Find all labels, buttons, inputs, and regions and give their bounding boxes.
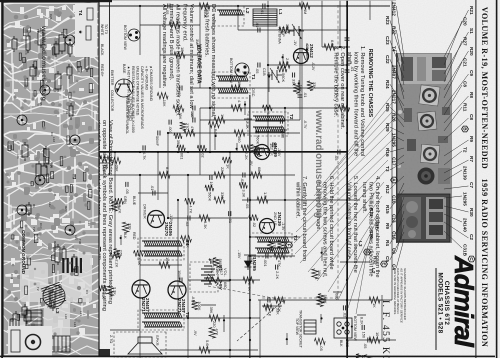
resistor Rf bbox=[122, 222, 128, 232]
svg-text:OSC.: OSC. bbox=[251, 88, 256, 98]
resistor Rf bbox=[110, 157, 121, 163]
svg-text:-1.3V: -1.3V bbox=[281, 222, 285, 231]
svg-text:560K: 560K bbox=[208, 192, 213, 201]
resistor Rf bbox=[241, 145, 250, 151]
svg-text:220: 220 bbox=[128, 223, 133, 230]
svg-text:BOTTOM VIEW: BOTTOM VIEW bbox=[353, 316, 357, 342]
capacitor Cf bbox=[210, 175, 212, 180]
svg-text:C31B: C31B bbox=[463, 244, 468, 257]
svg-text:2N271: 2N271 bbox=[177, 299, 182, 313]
svg-text:.01: .01 bbox=[255, 22, 260, 27]
svg-text:2.2K: 2.2K bbox=[114, 259, 119, 267]
svg-text:T3: T3 bbox=[385, 166, 390, 172]
transformer winding T4a bbox=[142, 241, 182, 246]
capacitor C19 bbox=[368, 338, 370, 343]
capacitor Cf bbox=[280, 119, 282, 124]
resistor Rf bbox=[98, 285, 106, 291]
resistor Rf bbox=[307, 81, 313, 91]
svg-text:1K: 1K bbox=[372, 303, 377, 308]
svg-text:TO T3: TO T3 bbox=[104, 24, 108, 34]
svg-text:REMOVING THE CHASSIS: REMOVING THE CHASSIS bbox=[367, 49, 373, 118]
svg-text:5MF: 5MF bbox=[102, 165, 107, 173]
svg-text:2N139: 2N139 bbox=[463, 166, 468, 180]
svg-text:C3: C3 bbox=[50, 132, 54, 136]
svg-text:.02: .02 bbox=[177, 91, 182, 96]
capacitor C4 bbox=[180, 86, 182, 91]
capacitor C22 bbox=[198, 45, 200, 50]
resistor Rf bbox=[100, 156, 110, 162]
svg-text:GRN: GRN bbox=[123, 196, 127, 204]
svg-text:10K: 10K bbox=[317, 270, 322, 277]
resistor R26 bbox=[369, 337, 380, 343]
svg-text:3.3K: 3.3K bbox=[137, 257, 142, 265]
capacitor C24 bbox=[338, 150, 340, 155]
detector rail bbox=[249, 95, 250, 358]
transformer winding T3a bbox=[255, 237, 289, 242]
svg-text:L26: L26 bbox=[87, 221, 91, 226]
resistor Rf bbox=[134, 250, 144, 256]
svg-text:-1.2V: -1.2V bbox=[169, 214, 173, 223]
svg-text:1M: 1M bbox=[303, 9, 308, 14]
svg-text:2.2K: 2.2K bbox=[244, 152, 249, 160]
svg-text:L13: L13 bbox=[79, 311, 83, 316]
svg-text:.05: .05 bbox=[165, 9, 170, 14]
resistor Rf bbox=[113, 249, 119, 258]
resistor Rf bbox=[277, 240, 283, 249]
svg-text:TRANSISTOR SYMBOL: TRANSISTOR SYMBOL bbox=[125, 96, 129, 134]
svg-text:.05: .05 bbox=[125, 188, 130, 193]
IF shield dashed line bbox=[337, 5, 339, 298]
svg-text:.01: .01 bbox=[228, 218, 233, 223]
capacitor Cf bbox=[276, 265, 278, 270]
resistor R2 bbox=[324, 44, 335, 50]
svg-text:10K: 10K bbox=[237, 81, 242, 88]
svg-text:T2: T2 bbox=[36, 287, 40, 291]
svg-text:4.7K: 4.7K bbox=[142, 152, 147, 160]
board ref labels bbox=[10, 14, 91, 327]
svg-text:T4: T4 bbox=[78, 10, 83, 16]
tuning capacitor C1B bbox=[267, 68, 282, 83]
resistor Rf bbox=[111, 201, 117, 211]
resistor Rf bbox=[213, 258, 219, 268]
svg-text:5. Loosen the hex nut that sec: 5. Loosen the hex nut that secures the bbox=[352, 176, 358, 273]
resistor R14 bbox=[274, 297, 285, 303]
svg-text:.01: .01 bbox=[260, 9, 265, 14]
svg-text:39K: 39K bbox=[101, 292, 106, 299]
resistor R12 bbox=[274, 253, 285, 259]
resistor Rf bbox=[115, 198, 124, 204]
resistor Rf bbox=[264, 304, 274, 310]
capacitor C10 bbox=[266, 254, 268, 259]
svg-text:R7: R7 bbox=[469, 156, 474, 162]
svg-text:.02: .02 bbox=[252, 222, 257, 227]
test point A bbox=[391, 177, 398, 183]
resistor R23 bbox=[174, 52, 185, 58]
svg-text:CHASSIS 6T2: CHASSIS 6T2 bbox=[443, 281, 450, 326]
capacitor Cf bbox=[292, 73, 294, 78]
svg-text:T5: T5 bbox=[185, 312, 190, 318]
svg-text:BLUE: BLUE bbox=[132, 196, 136, 206]
resistor R17 VOLUME bbox=[206, 277, 222, 283]
resistor Rf bbox=[205, 185, 214, 191]
loop antenna L1 bbox=[253, 9, 277, 26]
svg-text:L24: L24 bbox=[73, 322, 77, 327]
board small parts bbox=[8, 15, 93, 320]
callout labels above photo bbox=[444, 6, 475, 262]
resistor Rf bbox=[181, 236, 192, 242]
resistor R21 bbox=[199, 3, 210, 9]
svg-text:R23: R23 bbox=[385, 16, 390, 25]
svg-text:L1: L1 bbox=[278, 9, 283, 15]
svg-text:100K: 100K bbox=[197, 301, 202, 310]
svg-text:2.2K: 2.2K bbox=[210, 265, 215, 273]
svg-text:.05: .05 bbox=[363, 343, 368, 348]
svg-text:2.7K: 2.7K bbox=[247, 283, 252, 291]
svg-text:C20: C20 bbox=[463, 17, 468, 26]
svg-text:68K: 68K bbox=[257, 167, 262, 174]
svg-text:150: 150 bbox=[361, 332, 366, 339]
svg-text:www.radiomuseum.org: www.radiomuseum.org bbox=[40, 25, 47, 101]
svg-text:1959 RADIO SERVICING INFORMATI: 1959 RADIO SERVICING INFORMATION bbox=[480, 179, 489, 348]
svg-text:-0.7V: -0.7V bbox=[303, 120, 307, 129]
tuning capacitor C1A bbox=[289, 24, 304, 39]
svg-text:330: 330 bbox=[220, 192, 225, 199]
svg-text:C23: C23 bbox=[385, 36, 390, 45]
svg-text:two Phillips head screws adjac: two Phillips head screws adjacent the bbox=[368, 182, 374, 277]
svg-text:C8: C8 bbox=[469, 114, 474, 120]
resistor Rf bbox=[185, 198, 195, 204]
svg-text:RED: RED bbox=[132, 232, 136, 240]
lower rail bbox=[108, 0, 111, 175]
left lower border bbox=[0, 0, 112, 2]
svg-text:C9: C9 bbox=[469, 70, 474, 76]
svg-text:FOR USE IN GENERAL REPAIRS.: FOR USE IN GENERAL REPAIRS. bbox=[393, 268, 397, 315]
transistor Q2 2N139 first IF bbox=[255, 145, 270, 160]
svg-text:RED: RED bbox=[345, 340, 349, 348]
svg-text:R26: R26 bbox=[53, 241, 57, 247]
svg-text:150K: 150K bbox=[203, 9, 208, 18]
svg-text:R8: R8 bbox=[469, 92, 474, 98]
svg-text:2N270: 2N270 bbox=[164, 222, 169, 236]
right page border bbox=[0, 356, 495, 358]
svg-text:220: 220 bbox=[212, 321, 217, 328]
resistor Rf bbox=[209, 327, 215, 338]
capacitor C5 bbox=[193, 106, 195, 111]
IF transformer T2 (shield box) bbox=[248, 112, 288, 136]
transformer winding T2a bbox=[253, 116, 285, 121]
svg-text:6.8K: 6.8K bbox=[330, 40, 335, 48]
callout labels below photo bbox=[385, 2, 404, 270]
oscillator coil T1 (shield box) bbox=[212, 72, 250, 98]
svg-text:3. Remove the battery case.: 3. Remove the battery case. bbox=[333, 46, 339, 118]
svg-text:100: 100 bbox=[165, 257, 170, 264]
svg-text:R4: R4 bbox=[385, 240, 390, 246]
svg-text:COMMON GROUND: COMMON GROUND bbox=[21, 230, 26, 275]
svg-text:2.2K: 2.2K bbox=[112, 287, 117, 295]
resistor Rf bbox=[364, 355, 370, 358]
printed wiring board view bbox=[3, 2, 99, 356]
svg-text:terminals and B plus (ground).: terminals and B plus (ground). bbox=[168, 4, 174, 81]
svg-text:BOTTOM VIEW: BOTTOM VIEW bbox=[123, 25, 127, 51]
masthead rule above logo bbox=[475, 0, 476, 358]
svg-text:8.2K: 8.2K bbox=[359, 317, 364, 325]
svg-text:1. Remove Tuning knob and Volu: 1. Remove Tuning knob and Volume control bbox=[359, 46, 365, 156]
transistor Q4 2N406 driver bbox=[148, 211, 165, 228]
svg-text:47K: 47K bbox=[214, 328, 219, 335]
transformer winding T5b bbox=[142, 322, 182, 327]
bottom page border bbox=[1, 0, 3, 358]
svg-text:.001: .001 bbox=[168, 126, 173, 134]
capacitor C2 bbox=[345, 38, 350, 40]
svg-text:33K: 33K bbox=[312, 82, 317, 89]
svg-text:560K: 560K bbox=[281, 73, 286, 82]
resistor Rf bbox=[249, 214, 258, 220]
faint page edge bbox=[112, 0, 396, 2]
resistor R4 bbox=[231, 85, 242, 91]
svg-text:.02: .02 bbox=[185, 221, 190, 226]
schematic wiring bbox=[96, 0, 396, 358]
svg-text:T25: T25 bbox=[32, 227, 36, 233]
svg-text:C21: C21 bbox=[463, 58, 468, 67]
svg-text:on opposite side. Black symbo: on opposite side. Black symbols and line… bbox=[101, 120, 107, 311]
capacitor Cf bbox=[169, 120, 171, 125]
resistor R15 bbox=[234, 130, 245, 136]
svg-text:R1: R1 bbox=[32, 204, 36, 208]
resistor R8 bbox=[251, 172, 262, 178]
svg-text:L2: L2 bbox=[245, 8, 250, 14]
2N139 socket bottom view (small) bbox=[128, 29, 140, 41]
resistor Rf bbox=[173, 105, 184, 111]
svg-text:L3: L3 bbox=[358, 241, 363, 247]
resistor R18 bbox=[159, 262, 170, 268]
resistor R16 bbox=[199, 215, 210, 221]
svg-text:DRIVER: DRIVER bbox=[143, 204, 148, 219]
svg-text:BOTTOM VIEW: BOTTOM VIEW bbox=[229, 58, 233, 84]
resistor R20 bbox=[299, 3, 310, 9]
svg-text:C1B: C1B bbox=[262, 68, 267, 76]
svg-text:E: E bbox=[381, 262, 386, 265]
resistor R28 bbox=[199, 347, 210, 353]
svg-text:4. On the front of the cabinet: 4. On the front of the cabinet, loosen t… bbox=[374, 176, 380, 278]
svg-text:1K: 1K bbox=[185, 243, 190, 248]
resistor Rf bbox=[209, 121, 220, 127]
svg-text:2.2K: 2.2K bbox=[275, 271, 280, 279]
capacitor C16 bbox=[345, 70, 350, 72]
speaker magnet on board bbox=[26, 335, 41, 350]
resistor R1 bbox=[279, 27, 290, 33]
callout leader fan bbox=[294, 95, 392, 314]
svg-text:T30: T30 bbox=[78, 239, 82, 245]
svg-text:COLLECTOR: COLLECTOR bbox=[110, 90, 114, 112]
svg-text:T2: T2 bbox=[463, 147, 468, 153]
printed wiring board note bbox=[95, 120, 113, 311]
svg-text:C11: C11 bbox=[10, 274, 14, 280]
svg-text:UNLESS OTHERWISE NOTED.: UNLESS OTHERWISE NOTED. bbox=[136, 66, 140, 116]
svg-text:-1V: -1V bbox=[293, 40, 297, 46]
resistor Rf bbox=[180, 122, 186, 130]
svg-text:BLK: BLK bbox=[339, 340, 343, 347]
svg-text:TOP VIEW: TOP VIEW bbox=[295, 318, 299, 336]
svg-text:2N140: 2N140 bbox=[463, 218, 468, 232]
capacitor Cf bbox=[143, 145, 145, 150]
resistor Rf bbox=[197, 145, 206, 151]
svg-text:560K: 560K bbox=[218, 259, 223, 268]
svg-text:8.2K: 8.2K bbox=[165, 167, 170, 175]
copyright disclaimer bbox=[393, 267, 407, 324]
capacitor C13 bbox=[263, 4, 265, 9]
resistor R27 bbox=[209, 315, 220, 321]
svg-text:R15: R15 bbox=[385, 205, 390, 214]
resistor Rf bbox=[318, 294, 324, 304]
svg-text:.001: .001 bbox=[179, 152, 184, 160]
resistor Rf bbox=[267, 241, 273, 251]
resistor R19 bbox=[159, 172, 170, 178]
B minus bus (thick vertical) bbox=[96, 151, 348, 153]
svg-text:.02: .02 bbox=[272, 149, 277, 154]
capacitor Cf bbox=[362, 325, 364, 330]
svg-text:10K: 10K bbox=[298, 85, 303, 92]
svg-text:470: 470 bbox=[190, 126, 195, 133]
resistor Rf bbox=[356, 354, 362, 358]
2N412 socket bottom view bbox=[235, 63, 249, 77]
svg-text:BASE: BASE bbox=[122, 64, 126, 74]
solder pads bbox=[7, 9, 92, 349]
capacitor Cf bbox=[343, 305, 345, 310]
svg-text:C7: C7 bbox=[469, 182, 474, 188]
svg-text:18K: 18K bbox=[180, 47, 185, 54]
resistor Rf bbox=[157, 93, 168, 99]
board transformers bbox=[26, 310, 70, 352]
transformer winding T3b bbox=[255, 248, 289, 253]
svg-text:-8V: -8V bbox=[249, 160, 253, 166]
voltage data notes (top lines) bbox=[204, 4, 217, 118]
svg-text:-1.4V: -1.4V bbox=[277, 148, 281, 157]
svg-text:T2: T2 bbox=[289, 114, 294, 120]
svg-text:⍴ CHASSIS GROUND: ⍴ CHASSIS GROUND bbox=[149, 66, 153, 102]
resistor Rf bbox=[110, 252, 120, 258]
svg-text:.01: .01 bbox=[303, 92, 308, 97]
symbol legend bbox=[127, 66, 154, 133]
resistor Rf bbox=[107, 286, 113, 296]
svg-text:2.2K: 2.2K bbox=[285, 58, 290, 66]
transistor Q5 2N407 output bbox=[168, 281, 186, 299]
capacitor C17 bbox=[158, 131, 160, 136]
resistor Rf bbox=[317, 296, 323, 306]
svg-text:EMITTER: EMITTER bbox=[110, 70, 114, 86]
svg-text:33K: 33K bbox=[116, 202, 121, 209]
svg-text:39K: 39K bbox=[178, 113, 183, 120]
svg-text:-9V: -9V bbox=[193, 330, 197, 336]
output transformer T5 (shield box) bbox=[138, 310, 184, 330]
chassis photograph bbox=[396, 53, 452, 243]
svg-text:.05: .05 bbox=[334, 155, 339, 160]
svg-text:C26: C26 bbox=[49, 14, 53, 20]
white corner patches on board bbox=[75, 3, 97, 57]
resistor Rf bbox=[174, 133, 182, 139]
svg-text:10MF: 10MF bbox=[177, 270, 182, 281]
capacitor Cf bbox=[256, 129, 258, 134]
svg-text:47: 47 bbox=[175, 18, 180, 22]
svg-text:4.7K: 4.7K bbox=[237, 100, 242, 108]
svg-text:560K: 560K bbox=[255, 135, 260, 144]
resistor R5 bbox=[231, 105, 242, 111]
svg-text:-0.2V: -0.2V bbox=[311, 62, 315, 71]
svg-text:L3: L3 bbox=[55, 308, 60, 314]
capacitor C25 bbox=[153, 191, 155, 196]
svg-text:R27: R27 bbox=[463, 37, 468, 46]
svg-text:-.15V: -.15V bbox=[237, 250, 241, 259]
capacitor C6 bbox=[298, 95, 303, 97]
capacitor C3 bbox=[258, 63, 260, 68]
svg-text:R11: R11 bbox=[463, 103, 468, 112]
svg-text:270: 270 bbox=[185, 123, 190, 130]
resistor Rf bbox=[255, 146, 261, 157]
transistor socket bottom view bbox=[334, 318, 352, 338]
IF transformer T3 (shield box) bbox=[250, 233, 292, 257]
battery contact ladder bbox=[62, 258, 82, 273]
svg-text:.02: .02 bbox=[200, 152, 205, 157]
capacitor Cf bbox=[126, 182, 128, 187]
resistor R6 bbox=[214, 117, 225, 123]
svg-text:.05: .05 bbox=[190, 112, 195, 117]
svg-text:All voltage readings are negat: All voltage readings are negative. bbox=[161, 4, 167, 89]
svg-text:TRANSISTOR SOCKET: TRANSISTOR SOCKET bbox=[299, 310, 303, 349]
resistor Rf bbox=[192, 300, 198, 309]
svg-text:270: 270 bbox=[119, 250, 124, 257]
svg-text:⍱ B− GROUND: ⍱ B− GROUND bbox=[145, 66, 149, 90]
svg-text:R9: R9 bbox=[469, 136, 474, 142]
svg-text:L11: L11 bbox=[16, 154, 20, 159]
resistor R10 bbox=[214, 172, 225, 178]
capacitor Cf bbox=[211, 259, 213, 264]
svg-text:10K: 10K bbox=[162, 100, 167, 107]
transistor Q6 2N407 output bbox=[132, 280, 150, 298]
transistor symbol legend bbox=[115, 79, 133, 97]
svg-text:.01: .01 bbox=[150, 185, 155, 190]
svg-text:VOLTAGE DATA: VOLTAGE DATA bbox=[196, 44, 202, 84]
capacitor Cf bbox=[273, 142, 275, 147]
svg-text:680: 680 bbox=[280, 132, 285, 139]
board border bbox=[3, 2, 99, 356]
svg-text:VOLUME R-19, MOST-OFTEN-NEEDED: VOLUME R-19, MOST-OFTEN-NEEDED bbox=[480, 7, 489, 169]
svg-text:3MF: 3MF bbox=[195, 39, 200, 47]
svg-text:frequency end.: frequency end. bbox=[182, 4, 188, 42]
svg-text:T3: T3 bbox=[293, 235, 298, 241]
svg-text:5.6K: 5.6K bbox=[205, 340, 210, 348]
capacitor C18 bbox=[188, 216, 190, 221]
svg-text:1K: 1K bbox=[220, 114, 225, 119]
svg-text:R24: R24 bbox=[385, 80, 390, 89]
svg-text:L25: L25 bbox=[49, 163, 53, 168]
svg-text:T10: T10 bbox=[65, 109, 69, 115]
board connector block bbox=[96, 349, 110, 357]
resistor R22 bbox=[169, 22, 180, 28]
svg-text:tuning shaft.: tuning shaft. bbox=[361, 182, 367, 213]
resistor Rf bbox=[314, 338, 325, 344]
capacitor C21 bbox=[258, 28, 260, 33]
svg-text:R5: R5 bbox=[39, 102, 43, 106]
capacitor C7 bbox=[193, 118, 195, 123]
svg-text:Admiral: Admiral bbox=[449, 255, 479, 348]
svg-text:www.radiomuseum.org: www.radiomuseum.org bbox=[313, 109, 324, 218]
filler components bbox=[214, 129, 216, 150]
svg-text:C8: C8 bbox=[463, 81, 468, 87]
svg-text:DC voltages shown measured wit: DC voltages shown measured with no signa… bbox=[210, 4, 216, 118]
volume/switch mechanical link (dashed) bbox=[237, 300, 284, 341]
resistor Rf bbox=[239, 182, 247, 188]
svg-text:33K: 33K bbox=[275, 308, 280, 315]
svg-text:S1: S1 bbox=[469, 28, 474, 34]
